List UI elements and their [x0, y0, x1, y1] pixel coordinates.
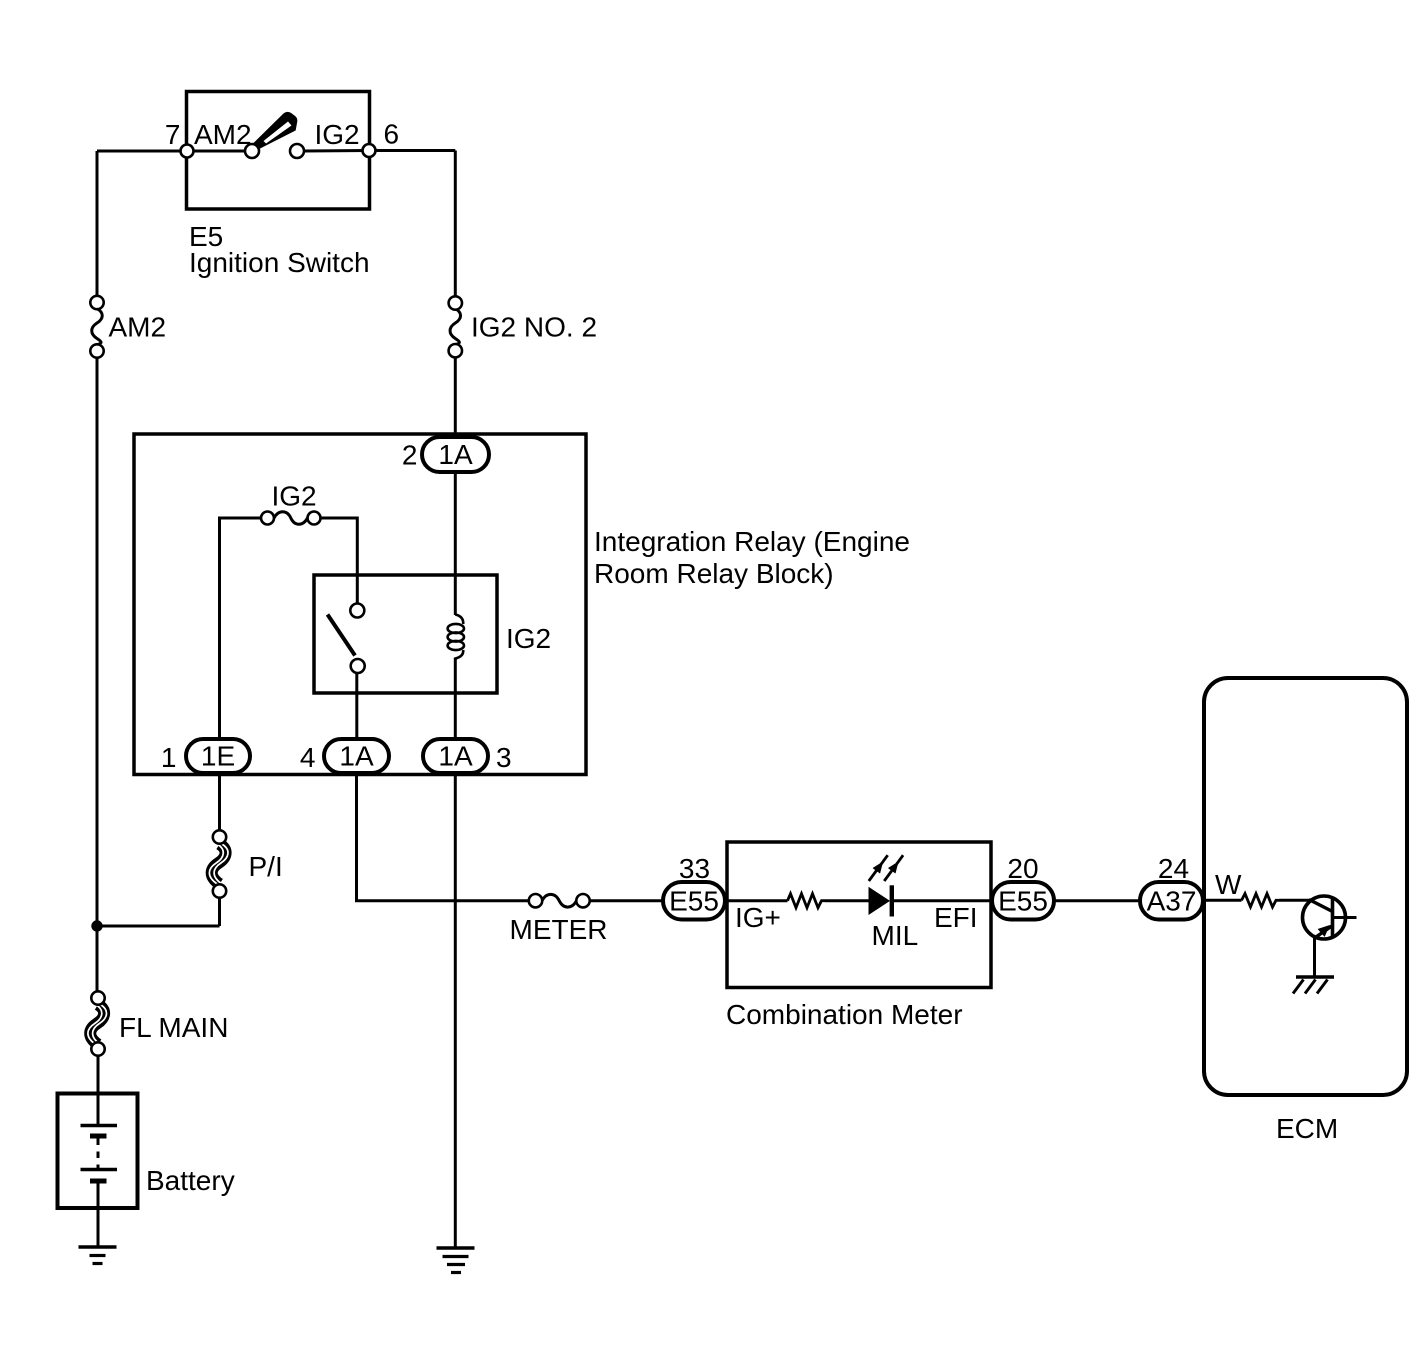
svg-text:Integration Relay (Engine: Integration Relay (Engine: [594, 526, 910, 557]
fusible link P/I: [209, 830, 228, 897]
ECM box: [1204, 678, 1407, 1095]
wire: IG2 NO.2 fuse to relay pin 2: [454, 357, 457, 438]
pin 6 terminal circle: [363, 144, 376, 157]
relay inner box: [314, 575, 497, 693]
svg-text:IG+: IG+: [735, 902, 781, 933]
svg-text:Combination Meter: Combination Meter: [726, 999, 963, 1030]
wire: FL MAIN to battery: [97, 1055, 100, 1095]
wire: junction to P/I branch: [97, 925, 220, 928]
svg-text:FL MAIN: FL MAIN: [119, 1012, 228, 1043]
MIL LED cathode bar: [890, 885, 894, 916]
wire: METER fuse to connector E55-33: [590, 899, 666, 902]
pin 7 terminal circle: [181, 145, 194, 158]
svg-text:METER: METER: [510, 914, 608, 945]
svg-text:Ignition Switch: Ignition Switch: [189, 247, 370, 278]
wire: pin6 to right bus: [375, 149, 455, 152]
relay switch bottom contact: [351, 659, 365, 673]
wire: battery to ground: [97, 1183, 100, 1247]
svg-text:4: 4: [300, 742, 316, 773]
wire: coil to relay pin 3: [454, 658, 457, 741]
svg-text:33: 33: [679, 853, 710, 884]
wire: E55-20 to A37: [1052, 899, 1142, 902]
svg-text:ECM: ECM: [1276, 1113, 1338, 1144]
svg-text:A37: A37: [1147, 886, 1197, 917]
svg-text:6: 6: [384, 119, 400, 150]
wire: relay pin 2 to coil: [454, 471, 457, 615]
AM2 contact circle: [245, 144, 259, 158]
wire: MIL lamp to connector E55-20: [893, 899, 994, 902]
wire: right bus upper segment: [454, 151, 457, 297]
wire: relay IG2 fuse right to relay switch: [320, 518, 357, 604]
svg-text:AM2: AM2: [109, 312, 167, 343]
wire: ignition switch internal IG2 side: [304, 149, 369, 153]
key lever of ignition switch: [252, 113, 297, 148]
relay pin 4 connector oval 1A: [324, 739, 389, 773]
transistor Q in ECM: [1303, 896, 1357, 977]
relay pin 2 connector oval 1A: [422, 437, 489, 472]
svg-text:7: 7: [165, 119, 181, 150]
wire: left bus upper segment: [96, 151, 99, 297]
svg-text:W: W: [1215, 869, 1242, 900]
integration relay outer box: [134, 434, 586, 775]
svg-text:2: 2: [402, 440, 418, 471]
fuse IG2 inside relay: [261, 512, 321, 525]
svg-text:1E: 1E: [201, 741, 235, 772]
wire: pin7 to left bus: [97, 150, 181, 153]
MIL LED arrow 2: [884, 855, 903, 881]
svg-text:MIL: MIL: [872, 920, 919, 951]
svg-text:EFI: EFI: [934, 902, 978, 933]
svg-text:1A: 1A: [438, 439, 473, 470]
wire: ignition switch internal AM2 side: [187, 150, 245, 153]
MIL LED arrow 1: [869, 855, 888, 881]
svg-text:1A: 1A: [339, 741, 374, 772]
relay switch lever: [328, 615, 356, 656]
svg-text:24: 24: [1158, 853, 1189, 884]
wire: relay IG2 fuse left to pin 1E: [220, 518, 263, 740]
svg-text:Battery: Battery: [146, 1165, 235, 1196]
wire: A37 into ECM to resistor: [1201, 899, 1242, 902]
relay switch top contact: [350, 604, 364, 618]
ground below battery: [79, 1247, 117, 1264]
svg-text:IG2 NO. 2: IG2 NO. 2: [471, 312, 597, 343]
battery cell symbol: [81, 1095, 118, 1181]
wire: pin 4 down and right to METER fuse: [357, 772, 530, 901]
connector oval E55 pin 20: [992, 882, 1054, 920]
IG2 contact circle: [290, 144, 304, 158]
combination meter box: [727, 842, 991, 988]
wire: resistor to MIL lamp: [825, 899, 869, 902]
battery box: [58, 1094, 138, 1209]
fuse IG2 NO. 2: [449, 296, 462, 357]
svg-text:IG2: IG2: [272, 481, 317, 512]
resistor in ECM: [1242, 894, 1280, 907]
wire: P/I upper lead from relay pin 1E: [218, 772, 221, 831]
svg-text:IG2: IG2: [506, 623, 551, 654]
svg-text:3: 3: [496, 742, 512, 773]
wire: ECM resistor to transistor base: [1280, 899, 1312, 902]
relay pin 3 connector oval 1A: [423, 739, 488, 773]
svg-text:E55: E55: [669, 886, 719, 917]
junction dot left bus: [91, 920, 102, 931]
resistor in combination meter: [788, 894, 826, 908]
svg-text:1A: 1A: [438, 741, 473, 772]
fuse METER: [529, 894, 590, 907]
relay coil IG2: [448, 615, 464, 659]
svg-text:P/I: P/I: [249, 851, 283, 882]
MIL LED triangle: [869, 887, 891, 915]
svg-text:1: 1: [161, 742, 177, 773]
ground below IG2 bus: [437, 1248, 475, 1273]
ignition switch box E5: [187, 92, 370, 210]
svg-text:IG2: IG2: [315, 119, 360, 150]
fusible link FL MAIN: [88, 991, 107, 1055]
svg-text:Room Relay Block): Room Relay Block): [594, 558, 834, 589]
relay pin 1 connector oval 1E: [186, 739, 250, 773]
connector oval A37 pin 24: [1140, 882, 1203, 920]
wire: P/I lower lead: [218, 898, 221, 927]
chassis ground in ECM: [1293, 977, 1334, 994]
svg-text:AM2: AM2: [194, 119, 252, 150]
fuse AM2: [90, 296, 103, 358]
wire: relay switch to pin 4: [355, 673, 358, 740]
wire: relay pin 3 to ground: [454, 772, 457, 1247]
svg-text:20: 20: [1007, 853, 1038, 884]
svg-text:E55: E55: [998, 886, 1048, 917]
connector oval E55 pin 33: [663, 882, 725, 920]
wire: left bus AM2-fuse to junction: [96, 357, 99, 992]
wire: E55-33 into combination meter to resistor: [723, 899, 788, 902]
